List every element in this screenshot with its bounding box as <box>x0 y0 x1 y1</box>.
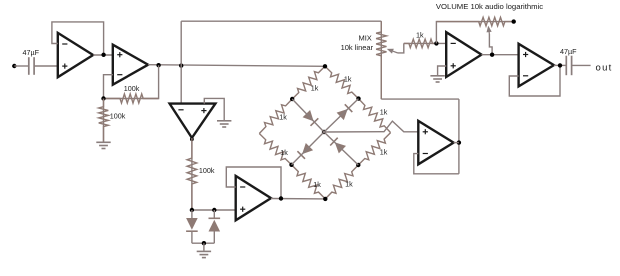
svg-text:MIX: MIX <box>358 34 371 43</box>
svg-text:1k: 1k <box>279 112 287 121</box>
svg-text:1k: 1k <box>313 180 321 189</box>
svg-text:1k: 1k <box>345 180 353 189</box>
svg-text:1k: 1k <box>416 31 424 40</box>
svg-text:47µF: 47µF <box>560 47 577 56</box>
svg-text:47µF: 47µF <box>23 48 40 57</box>
svg-text:10k linear: 10k linear <box>341 43 374 52</box>
svg-text:out: out <box>596 62 613 73</box>
svg-text:100k: 100k <box>124 84 140 93</box>
svg-text:1k: 1k <box>280 148 288 157</box>
svg-text:100k: 100k <box>199 166 215 175</box>
svg-text:1k: 1k <box>380 148 388 157</box>
svg-text:1k: 1k <box>311 83 319 92</box>
svg-text:VOLUME 10k audio logarithmic: VOLUME 10k audio logarithmic <box>436 2 543 11</box>
svg-text:100k: 100k <box>110 112 126 121</box>
svg-text:1k: 1k <box>344 75 352 84</box>
svg-text:1k: 1k <box>380 108 388 117</box>
